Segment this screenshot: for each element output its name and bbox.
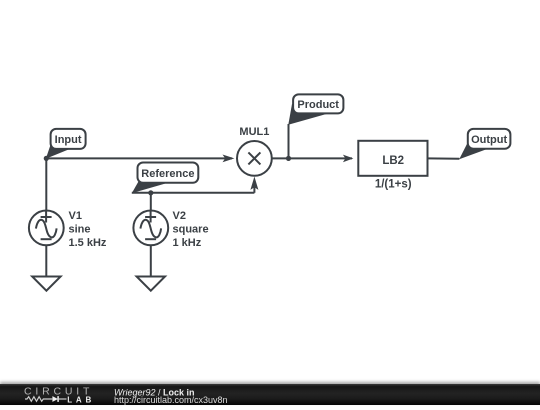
flag Input <box>46 129 86 159</box>
ground (V1) <box>32 277 60 291</box>
node: reference junction dot <box>148 190 153 195</box>
svg-text:sine: sine <box>69 224 91 236</box>
label V1 value <box>69 210 107 249</box>
svg-text:1 kHz: 1 kHz <box>173 237 202 249</box>
wire: V2 bottom to ground <box>150 245 152 276</box>
voltage source V2 <box>133 211 168 246</box>
multiplier MUL1 <box>237 141 272 176</box>
ground (V2) <box>137 277 165 291</box>
svg-text:Product: Product <box>297 99 339 111</box>
label V2 value <box>173 210 209 249</box>
svg-text:MUL1: MUL1 <box>239 126 269 138</box>
flag Product <box>288 94 343 124</box>
svg-text:Output: Output <box>471 134 507 146</box>
svg-text:square: square <box>173 224 209 236</box>
svg-text:LAB: LAB <box>67 395 95 404</box>
arrowhead into LB2 left <box>343 155 354 163</box>
svg-text:V2: V2 <box>173 210 186 222</box>
CircuitLab logo <box>24 386 95 405</box>
flag Output <box>459 129 510 159</box>
svg-text:Reference: Reference <box>141 168 194 180</box>
node: product junction dot <box>286 156 291 161</box>
wire: input node down to V1 top <box>45 158 47 210</box>
flag Reference <box>132 163 199 194</box>
wire: product tap vertical <box>288 124 290 158</box>
wire: V1 bottom to ground <box>45 245 47 276</box>
svg-text:http://circuitlab.com/cx3uv8n: http://circuitlab.com/cx3uv8n <box>114 395 228 405</box>
wire: LB2 right to output flag <box>428 157 460 159</box>
arrowhead into MUL1 left <box>223 155 235 163</box>
svg-text:V1: V1 <box>69 210 82 222</box>
svg-text:1.5 kHz: 1.5 kHz <box>69 237 107 249</box>
wire: input node to MUL1 left <box>46 157 232 159</box>
arrowhead into MUL1 bottom (pointing up) <box>250 177 258 190</box>
svg-text:LB2: LB2 <box>382 155 404 167</box>
voltage source V1 <box>29 211 64 246</box>
wire: MUL1 right to LB2 left <box>272 157 352 159</box>
node: input junction dot <box>44 156 49 161</box>
svg-text:Input: Input <box>55 134 82 146</box>
Laplace block LB2 <box>358 141 427 176</box>
footer bar <box>0 384 540 405</box>
wire: reference net horizontal <box>132 192 255 194</box>
svg-text:1/(1+s): 1/(1+s) <box>375 178 412 190</box>
wire: V2 node down to V2 top <box>150 193 152 211</box>
wire: reference vertical to MUL1 bottom <box>253 186 255 193</box>
